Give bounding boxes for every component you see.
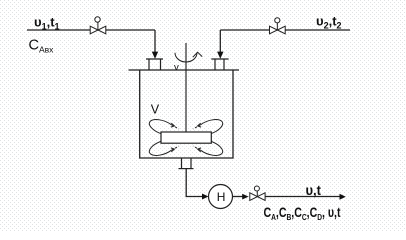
arrow into pump H: [202, 194, 209, 200]
label CAvx: [29, 38, 55, 55]
svg-text:υ,t: υ,t: [306, 182, 322, 198]
pump H circle: [209, 185, 233, 209]
wire outlet line: [265, 196, 340, 198]
wire drain pipe: [186, 169, 202, 197]
arrow outlet end: [340, 194, 346, 200]
arrow into valve V3: [242, 194, 248, 200]
wire inlet pipe 2 horizontal: [220, 29, 350, 31]
label V volume: [151, 102, 160, 116]
wire pump to valve: [233, 196, 243, 198]
flow loop lower-right: [193, 141, 223, 155]
arrow into nozzle N2: [217, 52, 223, 59]
label v,t outlet: [306, 182, 322, 198]
nozzle N2: [211, 59, 228, 70]
svg-text:H: H: [217, 190, 226, 204]
svg-text:V: V: [151, 102, 160, 116]
label v1,t1: [34, 15, 60, 32]
bottom nozzle: [179, 158, 194, 169]
stirrer shaft: [185, 43, 187, 132]
svg-text:v: v: [174, 62, 179, 73]
nozzle N1: [146, 59, 163, 70]
label CA CB CC CD v t: [264, 205, 341, 222]
wire inlet pipe 2 vertical drop: [219, 30, 221, 52]
label H: [217, 190, 226, 204]
label v speed: [174, 62, 179, 73]
arrow into nozzle N1: [152, 52, 158, 59]
wire inlet pipe 1 vertical drop: [154, 30, 156, 52]
valve V3: [250, 186, 265, 200]
label v2,t2: [316, 14, 342, 31]
tank vessel walls and bottom: [140, 70, 233, 158]
rotation arrow arc: [175, 52, 202, 62]
valve V1: [90, 17, 106, 34]
wire inlet pipe 1 horizontal: [27, 29, 155, 31]
flow loop upper-right: [193, 120, 223, 134]
valve V2: [270, 18, 286, 34]
flow loop upper-left: [149, 120, 179, 134]
flow loop lower-left: [149, 141, 179, 155]
impeller blade rectangle: [161, 132, 211, 143]
tank lid: [129, 69, 240, 71]
